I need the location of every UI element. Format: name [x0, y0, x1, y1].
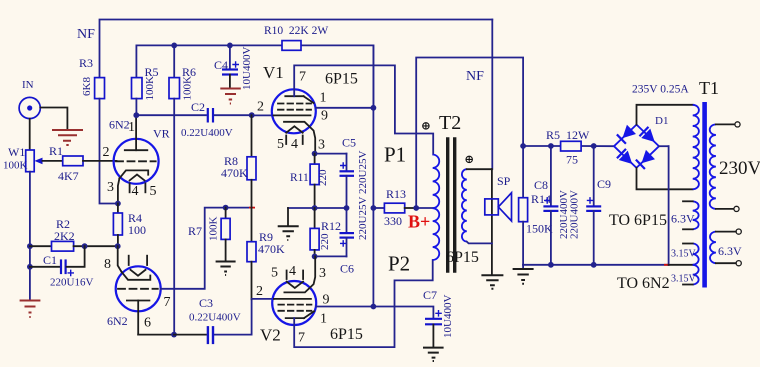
svg-text:10U400V: 10U400V [442, 295, 454, 338]
junction V1 cathode / R11 rail [312, 151, 318, 157]
wire V1 screen to bus [316, 107, 374, 109]
label C8 [534, 178, 548, 192]
svg-text:R14: R14 [531, 192, 551, 206]
junction C8 bottom [548, 262, 554, 268]
svg-text:3.15V: 3.15V [671, 274, 697, 285]
svg-text:TO 6P15: TO 6P15 [609, 212, 667, 229]
transformer T2 primary P2 winding [433, 208, 440, 260]
bridge rectifier D1 diamond [614, 125, 659, 168]
wire speaker line [491, 169, 493, 275]
svg-text:P1: P1 [384, 143, 406, 167]
svg-text:C8: C8 [534, 178, 548, 192]
junction C5/C6 [344, 205, 350, 211]
label 6P15 (V1) [325, 71, 358, 88]
label pin 3 (V1) [318, 138, 325, 153]
svg-text:W1: W1 [8, 145, 25, 159]
svg-text:7: 7 [298, 331, 305, 346]
svg-text:220: 220 [319, 233, 331, 250]
label C6 [340, 262, 354, 276]
junction C9 top [591, 143, 597, 149]
svg-text:100K: 100K [182, 76, 194, 101]
junction screen bus V2 [371, 304, 377, 310]
svg-text:6N2: 6N2 [107, 314, 128, 328]
junction cathode/NF/R4 [115, 201, 121, 207]
label VR [153, 127, 170, 141]
svg-text:2K2: 2K2 [54, 229, 75, 243]
VR plate bar [125, 149, 148, 151]
ground R7 [216, 262, 236, 276]
resistor R13 [373, 203, 416, 213]
svg-text:NF: NF [77, 27, 95, 42]
label 235V 0.25A [632, 84, 689, 96]
wire cathode rail bottom [315, 255, 347, 257]
wire R1 to grid pin 2 [83, 160, 117, 162]
junction C8 top [548, 143, 554, 149]
wire plate to C3 junction [138, 334, 174, 336]
svg-text:470K: 470K [221, 166, 248, 180]
capacitor C8 [543, 146, 558, 265]
label pin 8 [104, 257, 111, 272]
svg-text:3: 3 [318, 138, 325, 153]
junction R14 top [520, 143, 526, 149]
T1 3.15V stub lower [683, 284, 693, 286]
label T2 [439, 112, 461, 134]
resistor R8 [247, 115, 256, 207]
label 6.3V right [718, 244, 742, 258]
wire bridge top to T1 [637, 105, 693, 125]
label 3.15V lower [671, 274, 697, 285]
svg-text:6P15: 6P15 [446, 249, 479, 266]
wire V2 grid node [252, 298, 274, 300]
T1 3.15V winding lower [693, 265, 699, 285]
label R8 [224, 154, 238, 168]
svg-text:T1: T1 [699, 78, 719, 98]
svg-text:220U400V: 220U400V [569, 190, 581, 239]
plus C5 [340, 162, 347, 169]
wire pin 8 cathode [118, 246, 122, 272]
svg-text:6K8: 6K8 [81, 77, 93, 96]
T1 3.15V winding upper [693, 244, 699, 265]
VR heater [130, 175, 145, 181]
label 0.22U400V (C3) [189, 312, 241, 324]
svg-text:C7: C7 [423, 288, 437, 302]
svg-text:R10 22K 2W: R10 22K 2W [264, 25, 328, 37]
svg-text:75: 75 [566, 153, 578, 167]
label pin 3 (VR) [107, 180, 114, 195]
label 100K (R7) [208, 217, 220, 242]
wire VR cathode pin 3 down [118, 178, 120, 203]
svg-text:3: 3 [319, 266, 326, 281]
wire jack pin to W1 [29, 119, 31, 150]
label 6.3V left [671, 212, 695, 226]
svg-text:100K: 100K [144, 76, 156, 101]
label pin 7 (V1) [299, 70, 306, 85]
label pin 5 (VR) [150, 184, 157, 199]
svg-text:235V 0.25A: 235V 0.25A [632, 84, 689, 96]
label R2 [56, 217, 70, 231]
speaker SP [485, 193, 512, 221]
ground speaker [481, 275, 503, 289]
T1 6.3V right winding [710, 232, 716, 264]
V2 heater stubs [287, 271, 304, 280]
pin 2 label (VR triode 1) [103, 145, 110, 160]
svg-text:IN: IN [22, 79, 34, 91]
svg-text:6P15: 6P15 [325, 71, 358, 88]
transformer T2 primary P1 winding [433, 155, 440, 209]
label 0.22U400V (C2) [181, 127, 233, 139]
label R1 [49, 144, 63, 158]
label D1 [655, 115, 668, 127]
label C1 [43, 253, 57, 267]
label W1 [8, 145, 25, 159]
svg-text:470K: 470K [258, 242, 285, 256]
wire V2 screen to bus [316, 306, 373, 308]
svg-text:R7: R7 [188, 224, 202, 238]
resistor R3 [95, 78, 105, 99]
wire screen bus to C7 [373, 307, 433, 319]
label 230V [719, 158, 760, 179]
ground rail symbol [513, 265, 534, 284]
svg-text:4: 4 [291, 137, 298, 152]
wire NF feedback vertical [491, 20, 493, 170]
label IN [22, 79, 34, 91]
plus C1 [68, 270, 75, 277]
junction R6/plate/C3 [171, 332, 177, 338]
lower 6N2 heater [131, 270, 146, 276]
capacitor C9 [586, 146, 601, 265]
label pin 2 (V2) [256, 284, 263, 299]
D1 diode bottom-right [636, 150, 655, 169]
wire T2 secondary bottom [467, 242, 492, 244]
label pin 2 (V1) [257, 100, 264, 115]
label 150K (R14) [526, 222, 553, 236]
label 470K (R9) [258, 242, 285, 256]
VR cathode [119, 170, 148, 178]
label C4 [214, 58, 228, 72]
svg-text:C1: C1 [43, 253, 57, 267]
svg-text:9: 9 [321, 109, 328, 124]
lower 6N2 heater stubs [129, 256, 147, 265]
svg-text:C6: C6 [340, 262, 354, 276]
T1 6.3V left winding [693, 201, 699, 229]
label 220U16V [50, 277, 93, 289]
T1 6.3V left stubs [683, 201, 693, 229]
label pin 4 (V2) [289, 264, 296, 279]
wire to left ground [29, 267, 31, 300]
label pin 1 (V1) [320, 91, 327, 106]
label 4K7 [58, 169, 79, 183]
label C3 [199, 296, 213, 310]
label pin 6 [144, 316, 151, 331]
svg-text:150K: 150K [526, 222, 553, 236]
svg-text:R5 12W: R5 12W [546, 128, 590, 142]
label R12 [321, 219, 341, 233]
plus C9 [587, 197, 594, 204]
label 220U400V (C9) [569, 190, 581, 239]
lower 6N2 plate bar [127, 300, 149, 302]
junction B+ node [413, 205, 419, 211]
wire T2 secondary top to speaker [467, 168, 492, 170]
V1 grid g1 [274, 114, 311, 116]
V1 grid g3 dashed [278, 103, 311, 105]
label pin 4 (V1) [291, 137, 298, 152]
svg-text:1: 1 [320, 312, 327, 327]
wire B+ riser [416, 58, 523, 209]
label 220U25V (C5) [357, 151, 369, 194]
V2 grid g1 [274, 298, 311, 300]
label pin 7 (lower 6N2) [164, 295, 171, 310]
junction R4/R2/pin8 [115, 243, 121, 249]
label NF right [466, 69, 484, 84]
V2 grid g3 dashed [278, 310, 311, 312]
svg-text:5: 5 [150, 184, 157, 199]
label 100K (R6) [182, 76, 194, 101]
svg-text:220U25V: 220U25V [357, 197, 369, 240]
svg-text:D1: D1 [655, 115, 668, 127]
label 6N2 (lower) [107, 314, 128, 328]
resistor R5 [132, 78, 143, 116]
label TO 6P15 [609, 212, 667, 229]
label pin 9 (V1) [321, 109, 328, 124]
wire W1 wiper to R1 [43, 160, 63, 162]
V2 plate bar [286, 317, 304, 319]
label R11 [290, 172, 309, 184]
lower 6N2 plate stem pin 6 [137, 301, 139, 335]
svg-text:220U25V: 220U25V [357, 151, 369, 194]
capacitor C1 [30, 246, 85, 274]
label R7 [188, 224, 202, 238]
V1 heater [286, 126, 303, 132]
wire V1 anode pin7 to P1 [294, 65, 433, 154]
resistor R7 [221, 208, 230, 261]
label 330 (R13) [384, 214, 402, 228]
T1 230V winding [710, 124, 716, 208]
label 6N2 (VR) [109, 118, 130, 132]
label R9 [259, 230, 273, 244]
red tick rail end [664, 264, 670, 266]
label 100K (R5) [144, 76, 156, 101]
junction C2/R8/grid V1 [249, 112, 255, 118]
T1 3.15V stub upper [683, 243, 693, 245]
pentode V2 6P15 [272, 281, 316, 325]
label C9 [597, 177, 611, 191]
resistor R10 [282, 41, 301, 51]
label R14 [531, 192, 551, 206]
junction VR plate / R5 / C2 [133, 112, 139, 118]
label 100K (W1) [3, 160, 28, 172]
label 6K8 [81, 77, 93, 96]
transformer T2 secondary winding [462, 169, 467, 241]
transformer T1 core [702, 102, 707, 288]
svg-text:0.22U400V: 0.22U400V [189, 312, 241, 324]
plus C4 [232, 61, 239, 68]
label 6P15 (V2) [330, 326, 363, 343]
svg-text:C2: C2 [191, 100, 205, 114]
label pin 1 (VR) [128, 120, 135, 135]
svg-text:R12: R12 [321, 219, 341, 233]
wire jack shell to ground [40, 108, 67, 129]
svg-text:7: 7 [299, 70, 306, 85]
label 10U400V (C4) [241, 47, 253, 90]
label P2 [388, 252, 410, 276]
junction R6 top [171, 43, 177, 49]
resistor R9 [247, 208, 256, 300]
resistor R2 [30, 241, 118, 251]
ground left (red) [20, 301, 41, 318]
V1 heater stubs [286, 136, 303, 145]
label pin 7 (V2) [298, 331, 305, 346]
svg-text:6N2: 6N2 [109, 118, 130, 132]
svg-text:P2: P2 [388, 252, 410, 276]
pentode V1 6P15 [272, 89, 316, 133]
svg-text:2: 2 [256, 284, 263, 299]
svg-text:TO 6N2: TO 6N2 [617, 275, 670, 292]
wire W1 bottom to R2 rail [29, 172, 31, 267]
resistor R4 [113, 204, 122, 247]
lower 6N2 cathode [122, 272, 151, 280]
ground C7 [423, 348, 444, 361]
label pin 3 (V2) [319, 266, 326, 281]
label R5 [145, 65, 159, 79]
junction R7 top [223, 205, 229, 211]
ground input jack (red) [52, 130, 83, 145]
svg-text:C9: C9 [597, 177, 611, 191]
resistor R11 [310, 154, 319, 208]
node NF label [77, 27, 95, 42]
triode VR 6N2 upper [114, 139, 159, 184]
svg-text:9: 9 [323, 293, 330, 308]
label R10 22K 2W [264, 25, 328, 37]
label 220 (R12) [319, 233, 331, 250]
label T1 [699, 78, 719, 98]
V1 plate bar [285, 95, 303, 97]
label 220U400V (C8) [558, 190, 570, 239]
wire bridge bottom to T1 [637, 168, 693, 190]
potentiometer W1 [26, 150, 43, 172]
T1 230V terminals [716, 122, 740, 212]
label pin 9 (V2) [323, 293, 330, 308]
svg-text:NF: NF [466, 69, 484, 84]
svg-text:0.22U400V: 0.22U400V [181, 127, 233, 139]
svg-text:VR: VR [153, 127, 170, 141]
svg-text:R1: R1 [49, 144, 63, 158]
wire R3 bottom to cathode junction [100, 99, 118, 204]
wire cathode rail top [315, 153, 347, 155]
resistor R14 [519, 146, 528, 265]
label C5 [342, 136, 356, 150]
svg-text:B+: B+ [408, 212, 430, 232]
wire screen bus vertical [372, 45, 374, 306]
svg-text:3: 3 [107, 180, 114, 195]
capacitor C2 [208, 108, 252, 123]
wire cathode rail mid to ground [288, 208, 347, 226]
label R4 [128, 211, 142, 225]
svg-text:220U16V: 220U16V [50, 277, 93, 289]
T1 235V winding [693, 105, 699, 189]
VR grid dashed [116, 160, 156, 162]
label SP [497, 174, 511, 188]
label V1 [263, 63, 284, 82]
svg-text:R3: R3 [79, 56, 93, 70]
ground cathode rail [278, 226, 299, 240]
svg-text:2: 2 [257, 100, 264, 115]
wire B+ filter rail [523, 145, 614, 147]
label 75 [566, 153, 578, 167]
capacitor C4 [222, 45, 238, 87]
svg-text:4K7: 4K7 [58, 169, 79, 183]
svg-text:C4: C4 [214, 58, 228, 72]
wire ground rail [523, 264, 669, 266]
junction screen bus V1 [371, 105, 377, 111]
resistor R1 [63, 156, 83, 166]
svg-text:V2: V2 [260, 326, 281, 345]
V1 cathode [284, 122, 315, 154]
junction rail bottom / V2 pin3 [312, 254, 318, 260]
V2 heater [287, 282, 304, 288]
T2 core [448, 139, 455, 271]
svg-text:V1: V1 [263, 63, 284, 82]
junction R13 left [371, 205, 377, 211]
label C2 [191, 100, 205, 114]
svg-text:230V: 230V [719, 158, 760, 179]
label R5 12W [546, 128, 590, 142]
label 220U25V (C6) [357, 197, 369, 240]
svg-text:100K: 100K [3, 160, 28, 172]
label 2K2 [54, 229, 75, 243]
label R3 [79, 56, 93, 70]
label C7 [423, 288, 437, 302]
capacitor C6 [340, 208, 355, 256]
D1 diode top-right [639, 127, 659, 147]
svg-text:2: 2 [103, 145, 110, 160]
V1 plate diag [304, 96, 314, 103]
connector IN jack [19, 97, 40, 118]
svg-text:3.15V: 3.15V [671, 249, 697, 260]
label V2 [260, 326, 281, 345]
junction R11/R12 [312, 205, 318, 211]
wire V2 anode pin7 to P2 [294, 260, 433, 347]
plus C7 [435, 310, 442, 317]
V2 cathode [284, 256, 315, 292]
V2 grid g2 dashed [278, 304, 311, 306]
svg-text:220: 220 [317, 169, 329, 186]
red tick at R8 junction [249, 207, 255, 209]
svg-text:6.3V: 6.3V [718, 244, 742, 258]
label 220 (R11) [317, 169, 329, 186]
divider rail R7/R8 [226, 207, 249, 209]
V1 grid g2 dashed [278, 109, 311, 111]
svg-text:R13: R13 [386, 187, 406, 201]
capacitor C7 [425, 319, 442, 347]
wire NF top rail [100, 20, 493, 78]
junction R2/C1 [82, 243, 88, 249]
svg-text:C3: C3 [199, 296, 213, 310]
capacitor C5 [340, 154, 355, 208]
VR plate stem pin 1 [135, 115, 137, 150]
wire heater center tap [669, 264, 693, 266]
label R13 [386, 187, 406, 201]
svg-text:6P15: 6P15 [330, 326, 363, 343]
label TO 6N2 [617, 275, 670, 292]
label 3.15V upper [671, 249, 697, 260]
V2 plate diag [304, 311, 314, 318]
wire B+ to T2 center tap [416, 207, 433, 209]
D1 diode top-left [617, 125, 636, 144]
junction W1/R2 [27, 243, 33, 249]
svg-text:7: 7 [164, 295, 171, 310]
svg-text:T2: T2 [439, 112, 461, 134]
svg-text:5: 5 [271, 266, 278, 281]
